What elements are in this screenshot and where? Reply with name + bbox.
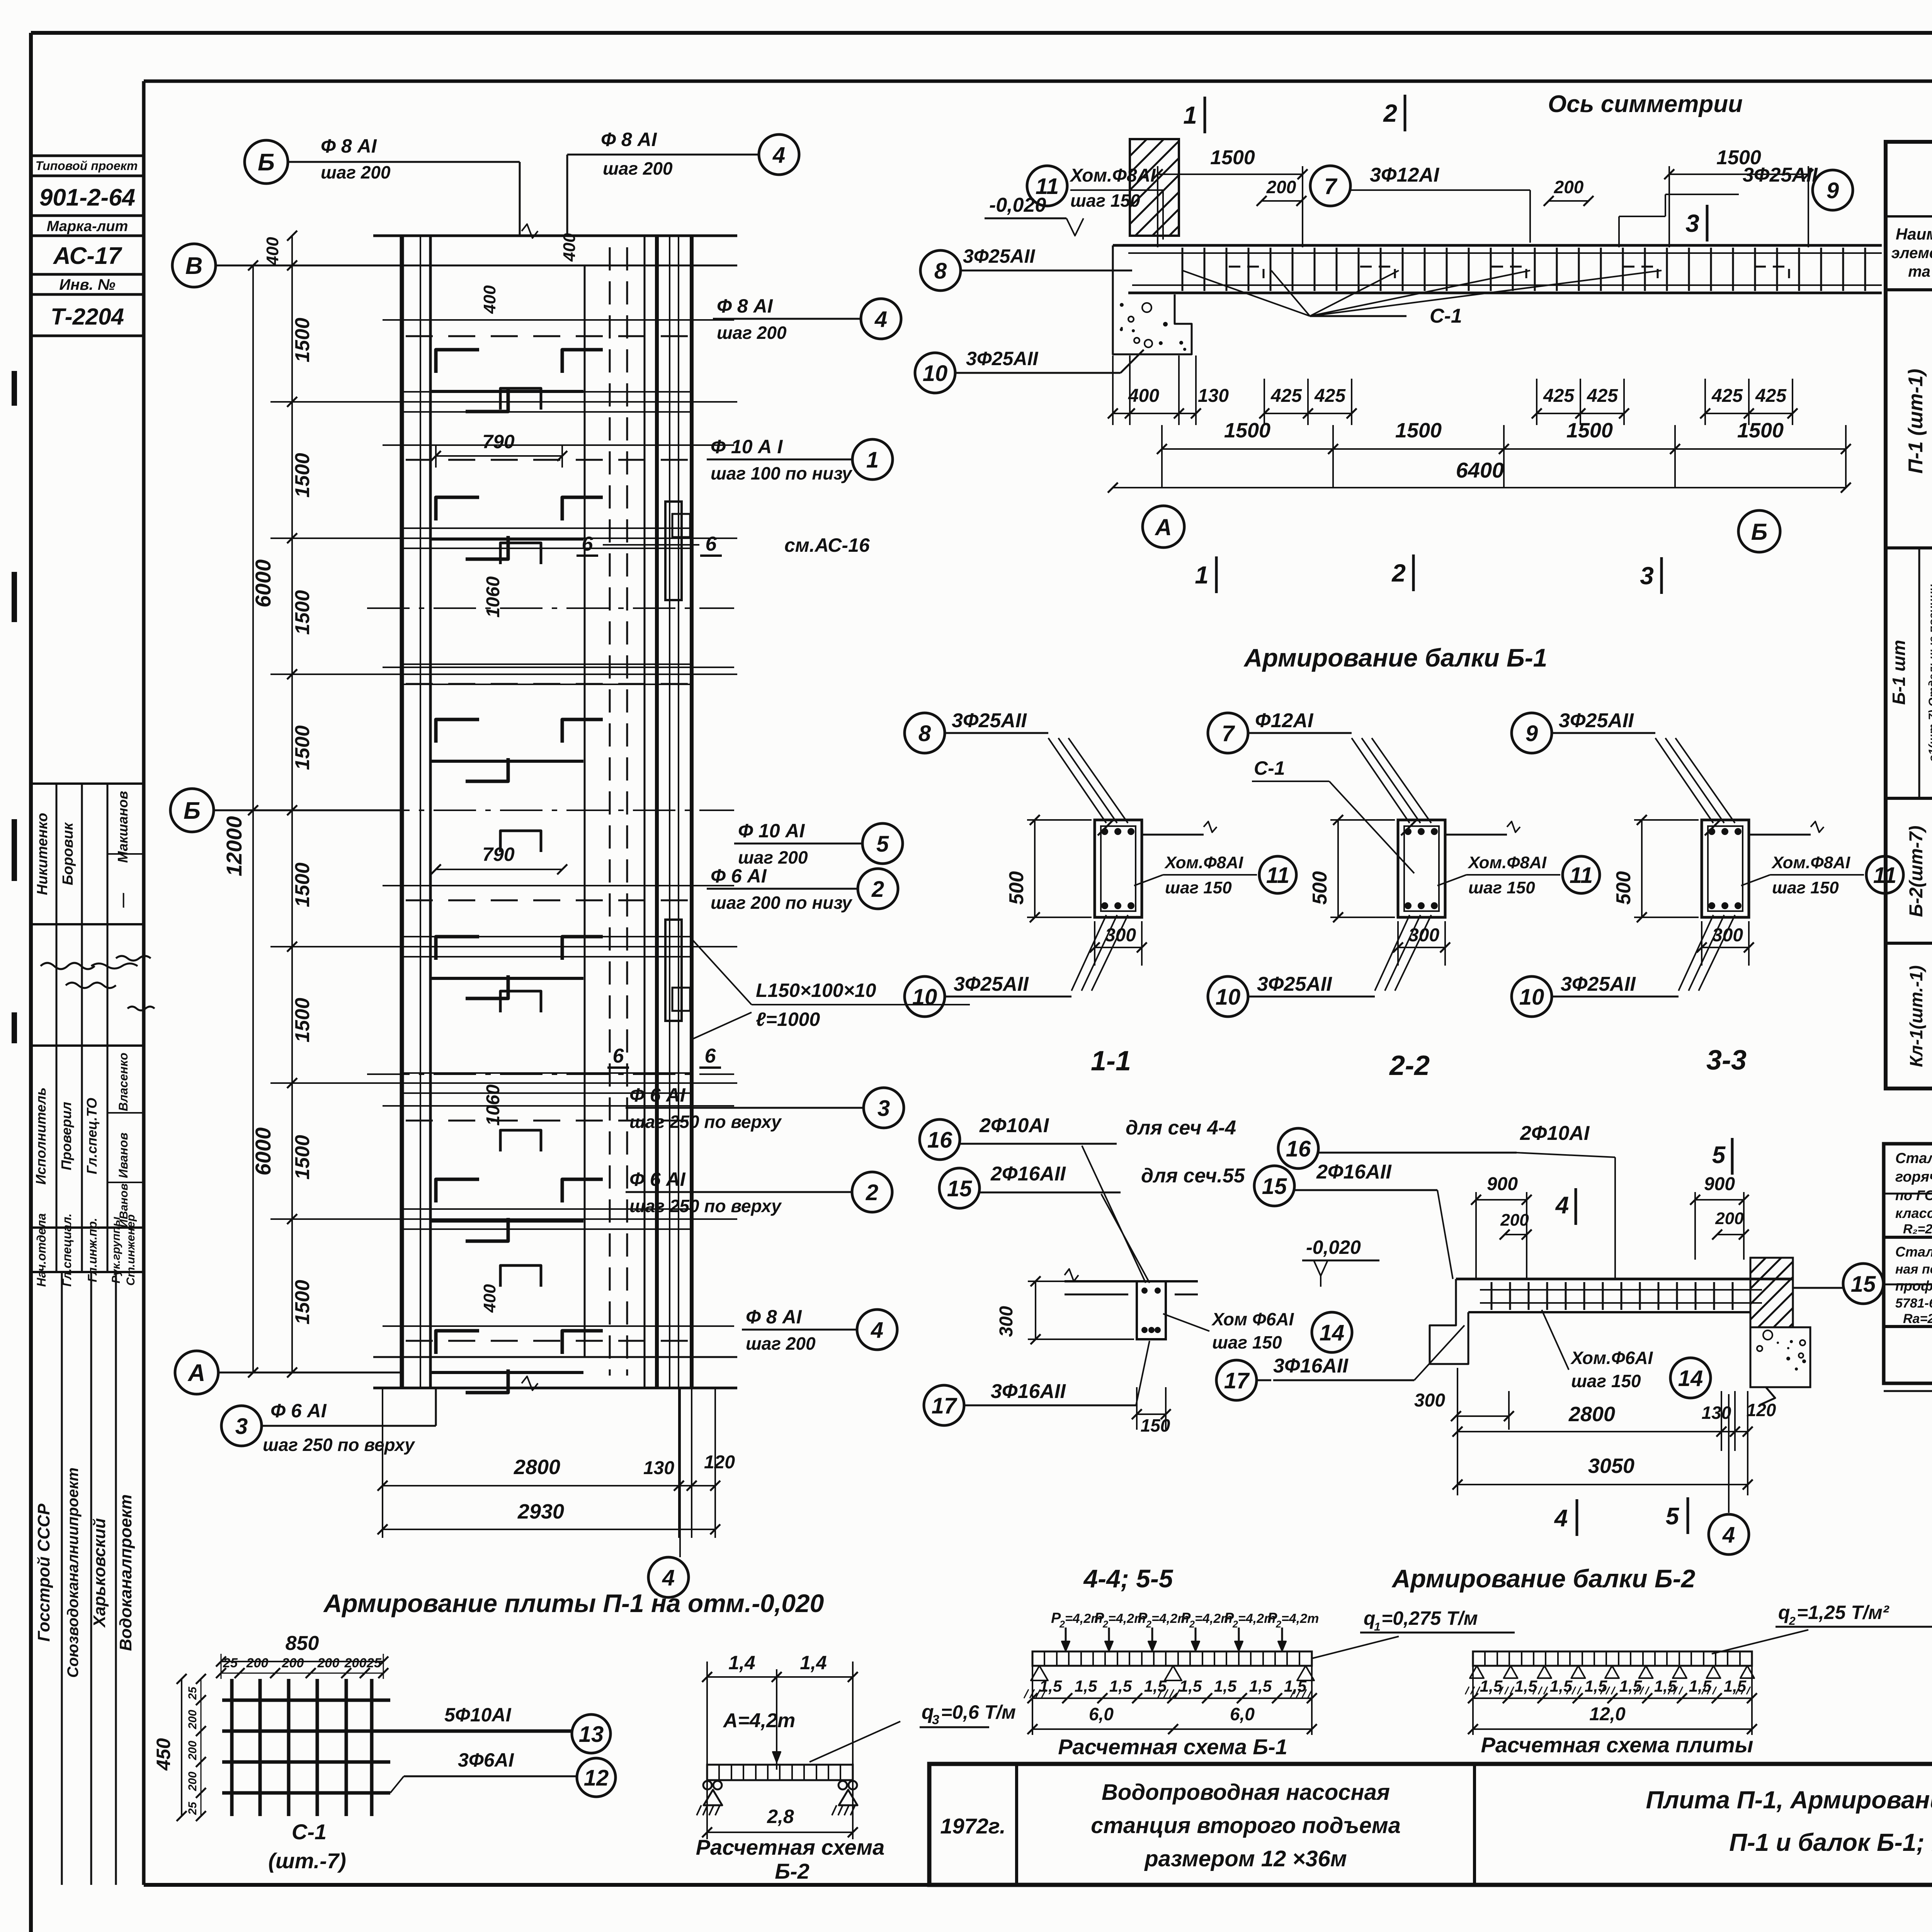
svg-text:шаг 150: шаг 150 [1772, 878, 1839, 897]
svg-text:С-1: С-1 [292, 1820, 327, 1844]
svg-text:300: 300 [1712, 925, 1743, 946]
section 1-1 top leaders [1048, 738, 1128, 823]
callout circle 3 [626, 1084, 904, 1132]
svg-text:шаг 200: шаг 200 [738, 847, 808, 867]
svg-text:6: 6 [705, 1045, 716, 1067]
svg-text:Ф 8 АI: Ф 8 АI [321, 135, 377, 157]
svg-text:горячекатаная: горячекатаная [1895, 1169, 1932, 1185]
group labels rotated [1889, 369, 1932, 1067]
axis circles А Б under beam [1143, 506, 1780, 552]
svg-text:L150×100×10: L150×100×10 [756, 980, 876, 1001]
callout circle 2 [626, 1168, 892, 1216]
svg-text:Б: Б [258, 149, 275, 176]
beam dim chain 1500x4 [1157, 419, 1851, 488]
svg-text:1500: 1500 [1224, 419, 1270, 442]
svg-text:300: 300 [1414, 1390, 1445, 1411]
svg-text:3: 3 [1685, 209, 1699, 237]
svg-text:790: 790 [482, 844, 515, 865]
svg-text:4: 4 [871, 1318, 883, 1343]
svg-text:900: 900 [1487, 1174, 1518, 1194]
svg-text:шаг 250 по верху: шаг 250 по верху [263, 1435, 415, 1455]
section 1-1 callout 10 [905, 973, 1071, 1017]
beam dim 6400 [1108, 458, 1851, 493]
svg-text:Б: Б [1751, 519, 1767, 545]
svg-text:12,0: 12,0 [1589, 1704, 1626, 1725]
beam Б-2 callout 17 [1216, 1325, 1514, 1430]
calc scheme plity [1465, 1602, 1932, 1757]
svg-text:6000: 6000 [251, 560, 275, 608]
svg-text:5781-61* класса АII: 5781-61* класса АII [1895, 1296, 1932, 1311]
section 3-3 stirrup label [1741, 853, 1903, 897]
svg-text:Ф 8 АI: Ф 8 АI [717, 295, 773, 317]
svg-text:1,5: 1,5 [1585, 1677, 1607, 1695]
section 4-4 5-5 drawing [996, 1146, 1198, 1435]
svg-text:Т-2204: Т-2204 [51, 304, 124, 330]
svg-text:900: 900 [1704, 1174, 1735, 1194]
svg-text:=0,275 Т/м: =0,275 Т/м [1381, 1607, 1478, 1629]
svg-text:200: 200 [1500, 1211, 1529, 1230]
callout circle 4 [742, 1306, 897, 1354]
svg-text:2-2: 2-2 [1389, 1050, 1430, 1081]
svg-text:Ф 6 АI: Ф 6 АI [629, 1084, 686, 1106]
calc scheme Б-2 [696, 1652, 1016, 1883]
svg-text:17: 17 [1224, 1368, 1250, 1393]
C-1 label [268, 1820, 346, 1873]
level mark -0.020 top [985, 194, 1083, 236]
svg-text:Сталь горячеката-: Сталь горячеката- [1895, 1244, 1932, 1260]
svg-text:Армирование плиты П-1 на отм: Армирование плиты П-1 на отм.-0,020 [323, 1589, 824, 1617]
svg-text:Б-2(шт-7): Б-2(шт-7) [1906, 826, 1927, 917]
callout circle 3 bottom left [221, 1388, 436, 1455]
dim 790 lower [431, 844, 567, 874]
beam Б-2 callout 15 left [1254, 1161, 1453, 1279]
section 3-3 bottom leaders [1679, 915, 1735, 991]
svg-text:3Ф16АII: 3Ф16АII [991, 1380, 1066, 1403]
svg-text:1: 1 [866, 447, 879, 473]
section 3-3 top leaders [1655, 738, 1735, 823]
C-1 dims [153, 1632, 388, 1821]
svg-text:1060: 1060 [483, 1084, 503, 1126]
beam Б-2 right wall hatched [1681, 1258, 1874, 1327]
svg-text:425: 425 [1314, 386, 1346, 406]
beam Б-1 elevation section marks top [1183, 91, 1743, 241]
svg-text:Гл.инж.пр.: Гл.инж.пр. [85, 1218, 99, 1282]
svg-text:2: 2 [1059, 1619, 1065, 1630]
section 1-1 callout 8 [905, 709, 1048, 753]
stamp org names box [34, 1272, 135, 1885]
callout circle 12 [390, 1749, 616, 1797]
svg-text:А: А [187, 1360, 206, 1386]
section 2-2 rect [1398, 820, 1520, 917]
svg-text:Rа=2700 кг/см2: Rа=2700 кг/см2 [1903, 1311, 1932, 1326]
row empty [0, 0, 0, 0]
svg-text:15: 15 [1262, 1174, 1287, 1199]
svg-text:1500: 1500 [291, 725, 314, 770]
svg-text:15: 15 [947, 1176, 972, 1201]
svg-text:17: 17 [932, 1393, 957, 1418]
mid title Выборка арматуры [1886, 1088, 1932, 1126]
svg-text:Проверил: Проверил [58, 1102, 74, 1170]
svg-text:по ГОСТ 5781-61*: по ГОСТ 5781-61* [1895, 1187, 1932, 1203]
svg-text:5: 5 [876, 832, 889, 857]
scan artifact marks left margin [12, 371, 17, 1043]
svg-text:q: q [1364, 1607, 1376, 1629]
spec table outer [1886, 142, 1932, 1088]
svg-text:6: 6 [582, 533, 594, 555]
svg-text:=4,2т: =4,2т [1281, 1611, 1319, 1626]
stamp signature table [31, 784, 155, 1287]
callouts 16/15 left list [920, 1114, 1236, 1160]
beam Б-2 callout 14 [1542, 1310, 1711, 1398]
svg-text:6000: 6000 [251, 1128, 275, 1176]
svg-text:15: 15 [1851, 1272, 1876, 1297]
svg-text:Ф 10 А I: Ф 10 А I [711, 436, 783, 457]
section 2-2 C-1 label [1252, 757, 1414, 873]
svg-text:2: 2 [1789, 1615, 1796, 1628]
svg-text:Кл-1(шт.-1): Кл-1(шт.-1) [1906, 965, 1926, 1067]
dim 1060 labels [480, 233, 579, 1313]
plan embedded plates [665, 502, 690, 1021]
svg-text:Плита П-1, Армирование плиты: Плита П-1, Армирование плиты [1646, 1786, 1932, 1814]
svg-text:3Ф25АII: 3Ф25АII [1559, 709, 1634, 732]
axis circle А [175, 1351, 402, 1394]
svg-text:10: 10 [923, 361, 948, 386]
svg-text:Хом.Ф8АI: Хом.Ф8АI [1069, 165, 1156, 186]
svg-text:П-1 и балок Б-1; Б-2: П-1 и балок Б-1; Б-2 [1729, 1828, 1932, 1856]
svg-text:425: 425 [1270, 386, 1302, 406]
svg-text:10: 10 [1519, 985, 1544, 1010]
beam Б-2 body [1430, 1279, 1793, 1364]
svg-text:Нач.отдела: Нач.отдела [34, 1213, 48, 1287]
svg-text:9: 9 [1526, 721, 1538, 746]
svg-text:500: 500 [1309, 871, 1331, 905]
svg-text:П-1 (шт-1): П-1 (шт-1) [1905, 369, 1927, 473]
beam Б-2 elevation callouts top [1278, 1122, 1732, 1279]
svg-text:шаг 250 по верху: шаг 250 по верху [629, 1112, 782, 1132]
svg-text:для сеч 4-4: для сеч 4-4 [1126, 1117, 1236, 1139]
spec table row grid [1886, 290, 1932, 1088]
svg-text:—: — [115, 893, 131, 908]
svg-text:12000: 12000 [222, 816, 246, 876]
svg-text:Боровик: Боровик [60, 822, 76, 885]
svg-text:Хом.Ф8АI: Хом.Ф8АI [1164, 853, 1243, 872]
svg-text:Расчетная схема Б-1: Расчетная схема Б-1 [1058, 1735, 1287, 1759]
svg-text:425: 425 [1755, 386, 1787, 406]
section 3-3 dims [1612, 815, 1754, 966]
svg-text:2: 2 [1383, 99, 1397, 127]
beam Б-1 lower-left pier [1113, 294, 1192, 354]
svg-text:130: 130 [643, 1458, 674, 1478]
svg-text:3-3: 3-3 [1706, 1045, 1747, 1076]
svg-text:3Ф25АII: 3Ф25АII [966, 348, 1038, 369]
svg-text:шаг 250 по верху: шаг 250 по верху [629, 1196, 782, 1216]
plan extension lines horizontal grid [270, 236, 737, 1388]
section 2-2 callout 10 [1208, 973, 1375, 1017]
beam Б-1 left wall hatched [1033, 139, 1283, 236]
svg-text:200: 200 [1715, 1209, 1744, 1228]
svg-text:120: 120 [704, 1452, 735, 1473]
svg-text:Ф 10 АI: Ф 10 АI [738, 820, 805, 842]
svg-text:элемен: элемен [1891, 245, 1932, 262]
svg-text:200: 200 [1266, 177, 1296, 197]
svg-text:16: 16 [1286, 1136, 1311, 1162]
section marks 1 2 3 under beam [1195, 554, 1662, 594]
svg-text:шаг 150: шаг 150 [1070, 190, 1140, 211]
svg-text:=0,6 Т/м: =0,6 Т/м [941, 1701, 1016, 1723]
svg-text:Расчетная схема плиты: Расчетная схема плиты [1481, 1733, 1753, 1757]
svg-text:1500: 1500 [291, 318, 314, 362]
svg-text:1060: 1060 [483, 576, 503, 617]
svg-text:1,5: 1,5 [1480, 1677, 1503, 1695]
C-1 mesh grid [222, 1679, 571, 1816]
svg-text:1: 1 [1374, 1621, 1381, 1633]
svg-text:1,5: 1,5 [1724, 1677, 1747, 1695]
callout 7 with 3Ф12АI [1310, 164, 1530, 243]
svg-text:200: 200 [246, 1656, 269, 1670]
svg-text:1,5: 1,5 [1654, 1677, 1677, 1695]
svg-text:Ф12АI: Ф12АI [1255, 709, 1314, 732]
svg-text:Никитенко: Никитенко [34, 813, 51, 895]
svg-text:200: 200 [186, 1741, 199, 1760]
svg-text:Иванов: Иванов [116, 1133, 130, 1178]
svg-text:9: 9 [1827, 178, 1839, 203]
angle plate label L150x100x10 [692, 939, 970, 1039]
svg-text:1,5: 1,5 [1619, 1677, 1642, 1695]
svg-text:8: 8 [934, 259, 947, 284]
title Армирование балки Б-1 [1243, 643, 1548, 672]
svg-text:400: 400 [560, 233, 579, 262]
svg-text:11: 11 [1570, 863, 1593, 888]
svg-text:3: 3 [878, 1096, 890, 1121]
plan walls vertical lines [402, 236, 692, 1388]
svg-text:шаг 200: шаг 200 [603, 158, 673, 179]
beam Б-2 right pier dotted [1750, 1327, 1810, 1405]
svg-text:5: 5 [1712, 1142, 1726, 1168]
section titles [1091, 1045, 1747, 1081]
svg-text:R₂=2100 кг/см2: R₂=2100 кг/см2 [1903, 1222, 1932, 1236]
svg-text:размером 12 ×36м: размером 12 ×36м [1144, 1846, 1347, 1871]
callout circle 1 [707, 436, 893, 483]
svg-text:1500: 1500 [1566, 419, 1613, 442]
plan dimension chain 1500s [263, 231, 314, 1378]
svg-text:3: 3 [1640, 562, 1654, 590]
section 4-4 callout 17 [924, 1341, 1150, 1425]
callout 9 with 3Ф25АII [1619, 164, 1853, 247]
svg-text:4-4; 5-5: 4-4; 5-5 [1083, 1564, 1173, 1593]
svg-text:16: 16 [927, 1128, 952, 1153]
svg-text:Б-1 шт: Б-1 шт [1889, 640, 1909, 705]
svg-text:4: 4 [1554, 1505, 1568, 1532]
svg-text:шаг 150: шаг 150 [1468, 878, 1535, 897]
svg-text:Марка-лит: Марка-лит [47, 218, 128, 235]
svg-text:3Ф25АII: 3Ф25АII [1561, 973, 1636, 995]
callout circle 2 [707, 865, 898, 913]
svg-text:500: 500 [1005, 871, 1028, 905]
svg-text:120: 120 [1747, 1400, 1776, 1420]
title block [929, 1764, 1932, 1885]
marks 4 5 bottom [1554, 1394, 1749, 1554]
plan bottom dims 2800/130/120 [378, 1388, 735, 1538]
svg-text:1500: 1500 [291, 1135, 314, 1180]
svg-text:1,4: 1,4 [800, 1652, 827, 1673]
svg-text:901-2-64: 901-2-64 [39, 184, 135, 211]
svg-text:Инв. №: Инв. № [59, 276, 115, 293]
svg-text:12: 12 [584, 1765, 609, 1791]
svg-text:Армирование балки Б-2: Армирование балки Б-2 [1391, 1564, 1696, 1593]
svg-text:7: 7 [1222, 721, 1235, 746]
plan dimension chain 12000 [222, 260, 275, 1378]
svg-text:5: 5 [1666, 1503, 1680, 1530]
spec table header [1886, 142, 1932, 1088]
svg-text:профиля по ГОСТ: профиля по ГОСТ [1895, 1278, 1932, 1294]
svg-text:для сеч.55: для сеч.55 [1141, 1165, 1245, 1187]
dim 790 upper [431, 431, 567, 468]
section 3-3 callout 10 [1512, 973, 1679, 1017]
svg-text:200: 200 [186, 1772, 199, 1791]
svg-text:Расчетная схема: Расчетная схема [696, 1835, 884, 1859]
svg-text:2: 2 [871, 877, 884, 902]
svg-text:790: 790 [482, 431, 515, 452]
svg-text:300: 300 [1408, 925, 1439, 946]
svg-text:1,5: 1,5 [1515, 1677, 1537, 1695]
svg-text:С-1: С-1 [1430, 305, 1462, 327]
svg-text:Ось симметрии: Ось симметрии [1548, 91, 1743, 117]
svg-text:1,5: 1,5 [1075, 1677, 1097, 1695]
section 1-1 rect [1095, 820, 1217, 917]
svg-text:Ф 6 АI: Ф 6 АI [711, 865, 767, 887]
svg-text:Наим.: Наим. [1896, 225, 1932, 243]
svg-text:5Ф10АI: 5Ф10АI [444, 1704, 512, 1726]
svg-text:1,5: 1,5 [1144, 1677, 1167, 1695]
svg-text:Армирование балки Б-1: Армирование балки Б-1 [1243, 643, 1548, 672]
svg-text:Б: Б [184, 798, 201, 824]
svg-text:1,5: 1,5 [1249, 1677, 1272, 1695]
svg-text:Ф 6 АI: Ф 6 АI [629, 1168, 686, 1190]
section 2-2 bottom leaders [1375, 915, 1431, 991]
section 4-4 stirrup callout 14 [1163, 1309, 1352, 1352]
svg-text:2: 2 [1189, 1619, 1195, 1630]
svg-text:400: 400 [1128, 386, 1159, 406]
svg-text:1,5: 1,5 [1214, 1677, 1237, 1695]
svg-text:200: 200 [282, 1656, 304, 1670]
section mark 6-6 upper [577, 533, 870, 556]
svg-text:200: 200 [1554, 177, 1584, 197]
svg-text:1,5: 1,5 [1109, 1677, 1132, 1695]
section 1-1 stirrup label [1134, 853, 1296, 897]
beam Б-2 bottom dims [1452, 1368, 1776, 1495]
svg-text:2: 2 [1232, 1619, 1238, 1630]
section 1-1 dims [1005, 815, 1147, 966]
svg-text:2930: 2930 [517, 1500, 564, 1523]
svg-text:1,5: 1,5 [1039, 1677, 1062, 1695]
section 2-2 callout 7 [1208, 709, 1352, 753]
svg-text:3Ф25АII: 3Ф25АII [952, 709, 1027, 732]
callout 8 top [920, 245, 1132, 291]
svg-text:14: 14 [1320, 1320, 1345, 1345]
section 3-3 callout 9 [1512, 709, 1655, 753]
svg-text:13: 13 [579, 1722, 604, 1747]
svg-text:3: 3 [235, 1414, 248, 1439]
svg-text:425: 425 [1543, 386, 1575, 406]
dims 1500 200 top of beam [1153, 146, 1813, 247]
svg-text:6,0: 6,0 [1089, 1704, 1114, 1724]
section 2-2 dims [1309, 815, 1450, 966]
svg-text:о1(шт-7) Отдельные позиции: о1(шт-7) Отдельные позиции [1927, 584, 1932, 762]
svg-text:6,0: 6,0 [1230, 1704, 1255, 1724]
svg-text:шаг 150: шаг 150 [1571, 1371, 1641, 1391]
plan view slab П-1 bottom band [373, 1357, 737, 1390]
svg-text:400: 400 [263, 237, 282, 266]
svg-text:(шт.-7): (шт.-7) [268, 1849, 346, 1873]
svg-text:10: 10 [1216, 985, 1241, 1010]
svg-text:шаг 200 по низу: шаг 200 по низу [711, 893, 853, 913]
svg-text:шаг 150: шаг 150 [1165, 878, 1232, 897]
svg-text:шаг 100 по низу: шаг 100 по низу [711, 463, 853, 483]
svg-text:25: 25 [223, 1656, 238, 1670]
svg-text:1972г.: 1972г. [940, 1814, 1005, 1838]
summary table [1884, 1144, 1932, 1391]
beam Б-2 dims 900/200 [1471, 1174, 1749, 1279]
lower titles [1083, 1564, 1695, 1593]
svg-text:400: 400 [480, 1284, 499, 1313]
svg-text:3Ф25АII: 3Ф25АII [1257, 973, 1332, 995]
svg-text:11: 11 [1036, 174, 1059, 199]
C-1 leader on beam [1182, 270, 1662, 327]
svg-text:3050: 3050 [1588, 1454, 1634, 1478]
svg-text:2Ф10АI: 2Ф10АI [1520, 1122, 1590, 1145]
plan dashed rebar lines [367, 320, 734, 1341]
svg-text:1500: 1500 [291, 1280, 314, 1325]
plan interior rebar rows [430, 350, 603, 1393]
svg-text:130: 130 [1702, 1403, 1731, 1423]
svg-text:450: 450 [153, 1738, 174, 1771]
svg-text:Сталь круглая: Сталь круглая [1895, 1150, 1932, 1167]
svg-text:Макшанов: Макшанов [115, 791, 131, 863]
left stamp column header boxes [31, 156, 144, 336]
svg-text:2: 2 [1102, 1619, 1108, 1630]
svg-text:2Ф10АI: 2Ф10АI [979, 1114, 1049, 1137]
svg-text:1500: 1500 [1210, 146, 1255, 169]
svg-text:Исполнитель: Исполнитель [33, 1087, 49, 1185]
callout 11 хомуты [1027, 165, 1163, 240]
svg-text:1,5: 1,5 [1179, 1677, 1202, 1695]
svg-text:-0,020: -0,020 [1306, 1236, 1361, 1258]
svg-text:Власенко: Власенко [116, 1053, 130, 1111]
svg-text:Ф 6 АI: Ф 6 АI [270, 1400, 327, 1422]
svg-text:1: 1 [1183, 101, 1197, 129]
svg-text:6: 6 [706, 533, 717, 555]
svg-text:Водопроводная насосная: Водопроводная насосная [1102, 1780, 1390, 1805]
svg-text:425: 425 [1711, 386, 1743, 406]
svg-text:1: 1 [1195, 561, 1209, 589]
svg-text:4: 4 [662, 1565, 675, 1590]
svg-text:см.АС-16: см.АС-16 [784, 534, 870, 556]
svg-text:6400: 6400 [1456, 458, 1504, 482]
svg-text:2: 2 [866, 1180, 878, 1205]
svg-text:1500: 1500 [1737, 419, 1784, 442]
svg-text:1500: 1500 [1716, 146, 1761, 169]
beam Б-1 body [1113, 245, 1882, 354]
svg-text:2: 2 [1391, 559, 1406, 587]
svg-text:класса АI: класса АI [1895, 1205, 1932, 1221]
svg-text:ная периодического: ная периодического [1895, 1262, 1932, 1277]
svg-text:Ф 8 АI: Ф 8 АI [746, 1306, 802, 1328]
svg-text:станция второго подъема: станция второго подъема [1091, 1813, 1401, 1838]
section 1-1 bottom leaders [1071, 915, 1128, 991]
svg-text:14: 14 [1678, 1366, 1703, 1391]
callout circle 13 [444, 1704, 611, 1753]
svg-text:Хом.Ф8АI: Хом.Ф8АI [1467, 853, 1547, 872]
